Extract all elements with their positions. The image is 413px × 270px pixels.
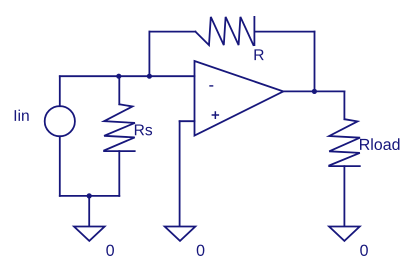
wire: plus input down to ground [179,121,181,226]
op-amp U1 triangle [195,61,284,136]
wire: Rs bottom lead [118,151,120,196]
op-amp minus sign [209,85,213,87]
resistor Rs sawtooth body [104,104,135,150]
label 0 (right ground) [360,245,368,256]
resistor R (feedback) sawtooth body [195,17,253,45]
wire: plus input horizontal [180,120,195,122]
label R [254,49,263,60]
wire: Iin bottom lead [59,136,61,196]
label 0 (middle ground) [197,245,205,256]
resistor Rload end bar [329,165,360,167]
wire: top horizontal to resistor R left lead [149,31,195,33]
ground symbol (left) [74,227,105,241]
label Rload [360,138,399,150]
junction node: output node [312,89,317,94]
wire: R right lead to top-right corner [254,31,314,33]
label Iin [15,110,29,121]
label Rs [135,124,152,135]
junction node: Rs top [116,74,121,79]
label 0 (left ground) [106,245,114,256]
wire: bottom-left horizontal [60,195,120,197]
ground symbol (right) [329,227,360,241]
wire: op-amp output to Rload corner [283,90,344,92]
wire: Rload bottom lead to ground [343,166,345,226]
wire: Iin top lead up to minus-input net [59,76,61,106]
wire: Rs top lead [118,76,120,104]
wire: left ground stub [88,196,90,227]
resistor Rload sawtooth body [329,119,360,165]
wire: right feedback vertical down to output node [314,32,316,92]
resistor Rs end bar [104,150,135,152]
wire: Rload top lead [343,91,345,119]
wire: feedback tap vertical up from minus net [148,32,150,77]
wire: minus input net horizontal (Iin top to op-amp minus input) [60,75,195,77]
current source Iin circle [45,106,75,136]
junction node: feedback tap [147,74,152,79]
ground symbol (middle) [165,227,196,241]
resistor R end bar [253,17,255,45]
op-amp plus sign [212,111,220,119]
junction node: bottom-left ground tap [87,193,92,198]
